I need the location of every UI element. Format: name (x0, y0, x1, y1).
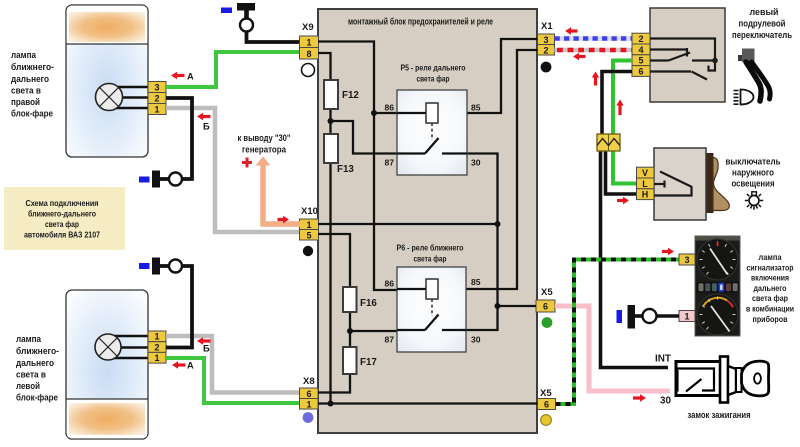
arrow at X1.3 wire (565, 27, 578, 34)
lighting switch pins V/L/H (637, 167, 655, 199)
svg-text:8: 8 (306, 49, 311, 59)
connector (joint, zigzag) (597, 134, 620, 151)
svg-text:30: 30 (471, 158, 481, 168)
svg-text:выключатель: выключатель (726, 157, 781, 167)
svg-text:5: 5 (306, 231, 311, 241)
lighting switch internal contacts (654, 172, 692, 196)
ignition lock (655, 354, 769, 421)
fuse F16 (343, 287, 377, 312)
wire: black to ignition INT (601, 149, 669, 368)
label: лампа сигнализатор включения дальнего света фар в комбинации приборов (746, 252, 794, 324)
ground (top, for relay coils via X9.1) (221, 3, 255, 32)
node: junction F13/X8.1 rail (328, 401, 334, 407)
label: левый подрулевой переключатель (732, 7, 792, 40)
wire: pink X5 top to ignition 30 (555, 306, 670, 391)
svg-text:2: 2 (154, 94, 159, 104)
svg-text:1: 1 (306, 400, 311, 410)
label: лампа ближнего-дальнего света в левой блок-фаре (16, 334, 59, 403)
wire: blue-striped X1.3 to switch pin 2 (555, 36, 633, 41)
svg-text:85: 85 (471, 277, 481, 287)
node: junction X9.1/P5.86 (371, 110, 377, 116)
left headlamp housing (66, 290, 148, 439)
svg-text:1: 1 (684, 312, 689, 322)
svg-text:ближнего-дальнего: ближнего-дальнего (28, 209, 96, 219)
wire: black from top ground to X9.1 (247, 32, 301, 43)
fuse F17 (343, 347, 377, 374)
node: junction F16/F17/P6.87 (347, 328, 353, 334)
svg-text:Б: Б (203, 344, 210, 354)
svg-text:дальнего: дальнего (754, 283, 787, 293)
svg-text:блок-фаре: блок-фаре (16, 393, 58, 403)
svg-text:30: 30 (660, 396, 671, 407)
wire: X10.5 through F16, F17 to X8.6 (318, 234, 350, 393)
svg-text:F17: F17 (360, 357, 377, 368)
svg-text:А: А (187, 72, 194, 82)
wire: fuse junction to P6.87 (350, 330, 425, 332)
svg-text:лампа: лампа (759, 252, 782, 262)
svg-text:X10: X10 (301, 206, 318, 217)
svg-text:1: 1 (154, 332, 159, 342)
wire: black switch pin 6 down (602, 72, 632, 137)
icon: sun (lighting) (745, 192, 763, 210)
wire: green switch pin 5 down to light switch L (613, 61, 637, 184)
svg-text:света фар: света фар (45, 219, 79, 229)
svg-text:лампа: лампа (11, 50, 37, 60)
svg-text:света в: света в (16, 370, 46, 380)
svg-text:L: L (642, 179, 648, 189)
instrument cluster (695, 236, 740, 336)
svg-text:87: 87 (384, 335, 394, 345)
svg-text:приборов: приборов (753, 314, 788, 324)
node: junction 30-rail/X5 top (495, 303, 501, 309)
svg-text:F12: F12 (342, 90, 359, 101)
svg-text:переключатель: переключатель (732, 30, 792, 40)
node: junction F12/F13/P5.87 (328, 118, 334, 124)
svg-text:замок зажигания: замок зажигания (688, 410, 751, 420)
left steering column switch U1 (650, 8, 725, 102)
svg-text:света в: света в (11, 86, 41, 96)
relay P5 (high beam relay) (384, 63, 480, 176)
svg-text:света фар: света фар (752, 293, 788, 303)
svg-text:3: 3 (684, 255, 689, 265)
svg-text:4: 4 (638, 45, 643, 55)
svg-text:X5: X5 (540, 388, 552, 399)
svg-text:1: 1 (306, 38, 311, 48)
svg-text:ближнего-: ближнего- (16, 346, 59, 356)
wire: red-striped X1.2 to switch pin 4 (555, 48, 633, 53)
wire: X9.1 ground rail to P5.86 and P6.86 (318, 42, 397, 291)
arrow at ignition 30 (633, 394, 646, 401)
wire: X1.2 down to P6.85 (438, 50, 538, 289)
svg-text:включения: включения (751, 273, 789, 283)
outer lighting switch SW1 (654, 148, 729, 220)
svg-text:Р6 - реле ближнего: Р6 - реле ближнего (397, 243, 464, 253)
svg-text:2: 2 (543, 46, 548, 56)
arrow А (left lamp) (172, 361, 194, 371)
svg-text:левой: левой (16, 381, 40, 391)
svg-text:1: 1 (154, 105, 159, 115)
svg-text:6: 6 (306, 389, 311, 399)
svg-text:левый: левый (750, 7, 779, 17)
svg-text:блок-фаре: блок-фаре (11, 109, 53, 119)
svg-text:подрулевой: подрулевой (739, 19, 786, 29)
svg-text:X8: X8 (303, 376, 315, 387)
icon: low beam headlight (734, 90, 754, 105)
wire: gray low-beam right lamp to X10.5 (166, 108, 300, 232)
right headlamp housing (66, 5, 148, 157)
svg-text:X1: X1 (541, 21, 553, 32)
svg-text:света фар: света фар (417, 74, 450, 84)
right headlamp connector pins 3/2/1 (148, 82, 166, 115)
cluster pin 1 (679, 311, 695, 322)
arrow at X10.1 (278, 216, 290, 223)
wire: 30-rail to X5 top (498, 305, 537, 307)
svg-text:к выводу "30": к выводу "30" (238, 133, 291, 143)
wire: black ground left lamp (166, 266, 192, 348)
svg-text:F16: F16 (360, 298, 377, 309)
svg-text:2: 2 (154, 342, 159, 352)
wire: X1.3 down to P5.85 (438, 39, 538, 113)
arrow А (right lamp) (171, 72, 194, 82)
steering switch pins 2/4/5/6 (632, 33, 650, 76)
svg-text:86: 86 (384, 279, 394, 289)
connector X1 (538, 21, 555, 72)
ground (left headlamp) (139, 258, 182, 275)
ground (instrument cluster) (617, 305, 657, 329)
wire: black ground right lamp (166, 98, 192, 179)
wire: fuse junction to P5.87 (331, 121, 426, 154)
fuse and relay block (монтажный блок) (318, 9, 537, 433)
svg-text:6: 6 (543, 302, 548, 312)
icon: steering column stalk (738, 49, 770, 102)
svg-text:дальнего: дальнего (11, 74, 49, 84)
arrow up (black wire) (592, 72, 599, 86)
node: junction 30-rail/X10.1 (495, 221, 501, 227)
relay P6 (low beam relay) (384, 243, 480, 353)
svg-text:87: 87 (384, 158, 394, 168)
cluster pin 3 (679, 254, 695, 265)
connector X5 bottom (538, 388, 556, 425)
svg-text:ближнего-: ближнего- (11, 62, 54, 72)
svg-text:1: 1 (154, 353, 159, 363)
legend box: Схема подключения (4, 187, 125, 250)
svg-text:в комбинации: в комбинации (746, 304, 794, 314)
svg-text:6: 6 (638, 66, 643, 76)
svg-text:монтажный блок предохранителей: монтажный блок предохранителей и реле (348, 17, 493, 27)
svg-text:X5: X5 (541, 287, 553, 298)
svg-text:85: 85 (471, 103, 481, 113)
svg-text:6: 6 (544, 400, 549, 410)
arrow Б (right lamp) (197, 113, 211, 132)
lamp (right headlamp bulb) (96, 84, 151, 111)
svg-text:Р5 - реле дальнего: Р5 - реле дальнего (401, 63, 466, 73)
svg-text:правой: правой (11, 97, 40, 107)
svg-text:Схема подключения: Схема подключения (26, 198, 99, 208)
svg-text:V: V (642, 168, 648, 178)
connector X8 (300, 376, 319, 423)
svg-text:86: 86 (384, 103, 394, 113)
lamp (left headlamp bulb) (95, 334, 150, 360)
arrow up (green wire) (616, 100, 623, 116)
svg-text:X9: X9 (302, 22, 314, 33)
svg-text:Б: Б (203, 122, 210, 132)
fuse F12 (324, 80, 359, 109)
svg-text:5: 5 (638, 56, 643, 66)
svg-text:H: H (642, 190, 649, 200)
svg-text:освещения: освещения (732, 179, 775, 189)
steering switch internal contacts (650, 39, 718, 80)
svg-text:сигнализатор: сигнализатор (747, 262, 794, 272)
fuse F13 (324, 134, 354, 175)
label: лампа ближнего-дальнего света в правой блок-фаре (11, 50, 54, 119)
svg-text:света фар: света фар (414, 254, 447, 264)
arrow at light switch H (617, 197, 629, 204)
arrow at X1.2 wire (573, 53, 586, 60)
wire: green high-beam left lamp to X8.1 (166, 358, 300, 403)
wire: to terminal 30 of generator (salmon arrow) (238, 133, 301, 224)
connector X5 top (536, 287, 555, 328)
svg-text:автомобиля ВАЗ 2107: автомобиля ВАЗ 2107 (24, 230, 100, 240)
svg-text:А: А (187, 361, 194, 371)
label: выключатель наружного освещения (726, 157, 781, 189)
svg-text:1: 1 (306, 220, 311, 230)
wire: P5.86 branch (374, 112, 397, 114)
svg-text:3: 3 (543, 35, 548, 45)
svg-text:генератора: генератора (242, 145, 287, 155)
connector X10 (300, 206, 319, 256)
left headlamp connector pins 1/2/1 (148, 331, 166, 363)
wire: X10.1 power feed (318, 223, 498, 225)
wire: X8.1 rail to X5 bottom (318, 402, 538, 404)
wire: black to light switch H (606, 149, 637, 194)
svg-text:F13: F13 (337, 164, 354, 175)
wire: gray low-beam left lamp to X8.6 (166, 336, 300, 393)
wire: black cluster pin 1 to ground (656, 314, 679, 318)
svg-text:INT: INT (655, 354, 671, 365)
svg-text:наружного: наружного (732, 168, 774, 178)
svg-text:30: 30 (471, 335, 481, 345)
svg-text:дальнего: дальнего (16, 358, 54, 368)
arrow at cluster pin 3 (662, 248, 674, 255)
wire: green high-beam right lamp to X9.8 (166, 52, 300, 87)
svg-text:3: 3 (154, 83, 159, 93)
connector X9 (300, 22, 319, 77)
svg-text:2: 2 (638, 34, 643, 44)
wire: P5.30 down to P6.30 (442, 154, 498, 331)
wire: X9.8 through F12, F13 down to X8.1 rail (318, 53, 331, 404)
wire: green/black striped X5 bottom to cluster pin 3 (556, 260, 680, 405)
ground (right headlamp) (139, 171, 182, 188)
svg-text:лампа: лампа (16, 334, 42, 344)
arrow Б (left lamp) (197, 337, 211, 353)
